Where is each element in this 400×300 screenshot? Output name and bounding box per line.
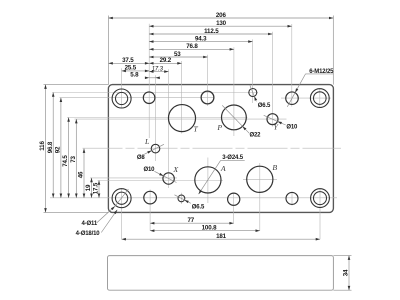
- dim 96.8 vertical: [52, 93, 54, 198]
- centerline bottom hole x=150 extended to dim 100.8: [149, 190, 151, 231]
- row centerline y=148.6 L hole for dim 46: [83, 147, 342, 149]
- centerline counterbore bottom-left x=121.6 extended to dim 181: [121, 188, 123, 239]
- dim 29.2: [149, 62, 181, 64]
- svg-text:46: 46: [78, 171, 85, 178]
- extension line plate right edge x=333.3: [332, 16, 334, 85]
- svg-text:A: A: [220, 164, 226, 173]
- label O6.5 bottom with leader: [184, 200, 190, 203]
- svg-text:Ø8: Ø8: [137, 155, 146, 161]
- svg-text:4-Ø18/10: 4-Ø18/10: [76, 231, 101, 237]
- svg-text:53: 53: [174, 51, 181, 58]
- port hole P O22: [222, 105, 247, 130]
- svg-text:Ø22: Ø22: [249, 133, 261, 139]
- dim 25.5: [122, 70, 150, 72]
- centerline top-middle hole x=207.5: [207, 55, 209, 106]
- centerline P hole x=233.9: [233, 47, 235, 136]
- hole X O10: [163, 173, 174, 184]
- side view extension line top: [333, 255, 351, 257]
- dim 76.8: [149, 48, 234, 50]
- dim 100.8: [150, 230, 260, 232]
- centerline M12 hole top x=291.8: [291, 24, 293, 107]
- counterbore hole 4-O18/10 top-left outer: [112, 89, 131, 108]
- label O6.5 top with leader: [254, 96, 256, 101]
- svg-text:76.8: 76.8: [186, 43, 198, 50]
- dim 17.5 vertical: [98, 181, 100, 198]
- svg-text:181: 181: [216, 233, 227, 240]
- hole bottom second: [144, 191, 157, 204]
- row centerline bottom holes y=197.8: [50, 197, 337, 199]
- centerline O6.5 bottom hole: [180, 193, 182, 204]
- plate outline (front view): [108, 85, 333, 213]
- centerline Y hole x=272.4: [271, 32, 273, 127]
- centerline counterbore bottom-right x=320 extended to dim 181: [319, 188, 321, 239]
- row extension line plate-top for dim 116: [44, 84, 109, 86]
- port hole T O22: [168, 105, 195, 132]
- svg-text:100.8: 100.8: [202, 225, 217, 232]
- dim 19 vertical: [91, 178, 93, 198]
- extension line plate left edge x=108.5: [108, 16, 110, 85]
- label O10 Y with leader: [278, 121, 286, 125]
- svg-text:74.5: 74.5: [62, 155, 69, 167]
- svg-text:P: P: [216, 123, 222, 132]
- svg-text:34: 34: [343, 269, 350, 276]
- hole M12 bottom-right: [286, 192, 298, 204]
- hole O6.5 bottom: [178, 195, 185, 202]
- svg-text:17.5: 17.5: [93, 182, 100, 194]
- svg-text:L: L: [144, 137, 149, 146]
- hole O6.5 top: [249, 89, 257, 97]
- svg-text:Ø6.5: Ø6.5: [192, 205, 205, 211]
- dim 5.8: [149, 77, 155, 79]
- centerline counterbore top-right: [319, 89, 321, 109]
- svg-text:77: 77: [188, 217, 195, 224]
- centerline bottom-middle hole x=233.8 extended to dim 77: [233, 193, 235, 224]
- svg-text:96.8: 96.8: [47, 141, 54, 153]
- dim 94.3: [149, 41, 252, 43]
- centerline A hole x=207.9: [207, 158, 209, 204]
- dim 206: [109, 17, 334, 19]
- leader through counterbore bottom-left: [115, 189, 128, 206]
- svg-text:Ø10: Ø10: [143, 167, 155, 173]
- svg-text:92: 92: [55, 146, 62, 153]
- svg-text:T: T: [193, 124, 198, 133]
- svg-text:19: 19: [85, 184, 92, 191]
- port hole A O24.5: [195, 167, 221, 193]
- dim 53: [149, 56, 207, 58]
- dim 34 vertical: [348, 256, 350, 291]
- centerline X hole x=168.5: [168, 69, 170, 188]
- counterbore hole bottom-right outer: [311, 189, 330, 208]
- centerline L hole x=155.5: [155, 75, 157, 161]
- row centerline top-right holes: [281, 97, 331, 99]
- counterbore hole top-left inner: [116, 92, 128, 104]
- dim 130: [149, 25, 292, 27]
- row centerline y=92.5 (O6.5 top hole) for dim 96.8: [52, 92, 258, 94]
- svg-text:17.3: 17.3: [152, 66, 164, 72]
- port hole B O24.5: [247, 166, 273, 192]
- dim 181: [122, 238, 320, 240]
- dim 37.5: [109, 62, 150, 64]
- hole L O8: [151, 144, 160, 153]
- centerline counterbore top-left: [121, 68, 123, 108]
- row centerline B hole segment: [243, 178, 277, 180]
- side view outline (bottom view): [108, 256, 334, 291]
- svg-text:116: 116: [39, 141, 46, 151]
- row centerline y=117.5 T P holes for dim 74.5: [67, 117, 248, 119]
- counterbore hole top-right outer: [310, 89, 329, 108]
- counterbore hole bottom-left inner: [116, 192, 128, 204]
- centerline datum hole x=149: [148, 24, 150, 138]
- row centerline y=119 Y hole for dim 73: [75, 118, 287, 120]
- svg-text:Ø6.5: Ø6.5: [258, 103, 271, 109]
- dim 73 vertical: [75, 119, 77, 198]
- dim 92 vertical: [60, 98, 62, 198]
- svg-text:4-Ø11: 4-Ø11: [81, 221, 97, 227]
- side view extension line bottom: [333, 289, 351, 291]
- label O8 L with leader: [144, 151, 151, 155]
- hole bottom-middle: [228, 193, 240, 205]
- centerline T hole x=181.6: [181, 61, 183, 134]
- label O22 P with leader: [243, 126, 250, 133]
- svg-text:94.3: 94.3: [195, 35, 207, 42]
- hole M12 top-right: [286, 92, 299, 105]
- datum hole top-left: [143, 92, 155, 104]
- dim 112.5: [149, 33, 272, 35]
- dim 46 vertical: [83, 149, 85, 198]
- dim 116 vertical: [45, 85, 47, 213]
- svg-text:B: B: [272, 163, 277, 172]
- svg-text:5.8: 5.8: [130, 72, 139, 79]
- dim 77: [150, 222, 234, 224]
- counterbore hole bottom-right inner: [314, 192, 327, 205]
- centerline B hole x=259.8: [259, 163, 261, 231]
- label O10 X with leader: [154, 171, 163, 176]
- svg-text:Ø10: Ø10: [286, 125, 298, 131]
- hole Y O10: [267, 114, 278, 125]
- row centerline y=177.9 X hole for dim 19: [90, 177, 177, 179]
- counterbore hole bottom-left outer: [112, 189, 131, 208]
- hole top-middle: [201, 91, 214, 104]
- dim 17.3 reference: [149, 71, 168, 73]
- dim 74.5 vertical: [68, 118, 70, 198]
- row centerline y=97.7 top holes for dim 92: [60, 97, 215, 99]
- centerline M12 hole bottom: [291, 192, 293, 206]
- svg-text:37.5: 37.5: [122, 57, 134, 64]
- counterbore hole top-right inner: [314, 92, 327, 105]
- svg-text:29.2: 29.2: [160, 57, 172, 64]
- svg-text:206: 206: [216, 12, 227, 19]
- centerline O6.5 top hole x=252.5: [252, 39, 254, 103]
- row centerline y=180.5 A B holes for dim 17.5: [98, 180, 224, 182]
- svg-text:73: 73: [70, 156, 77, 163]
- svg-text:130: 130: [216, 20, 227, 27]
- svg-text:112.5: 112.5: [204, 28, 219, 35]
- row extension line plate-bottom for dim 116: [44, 211, 109, 213]
